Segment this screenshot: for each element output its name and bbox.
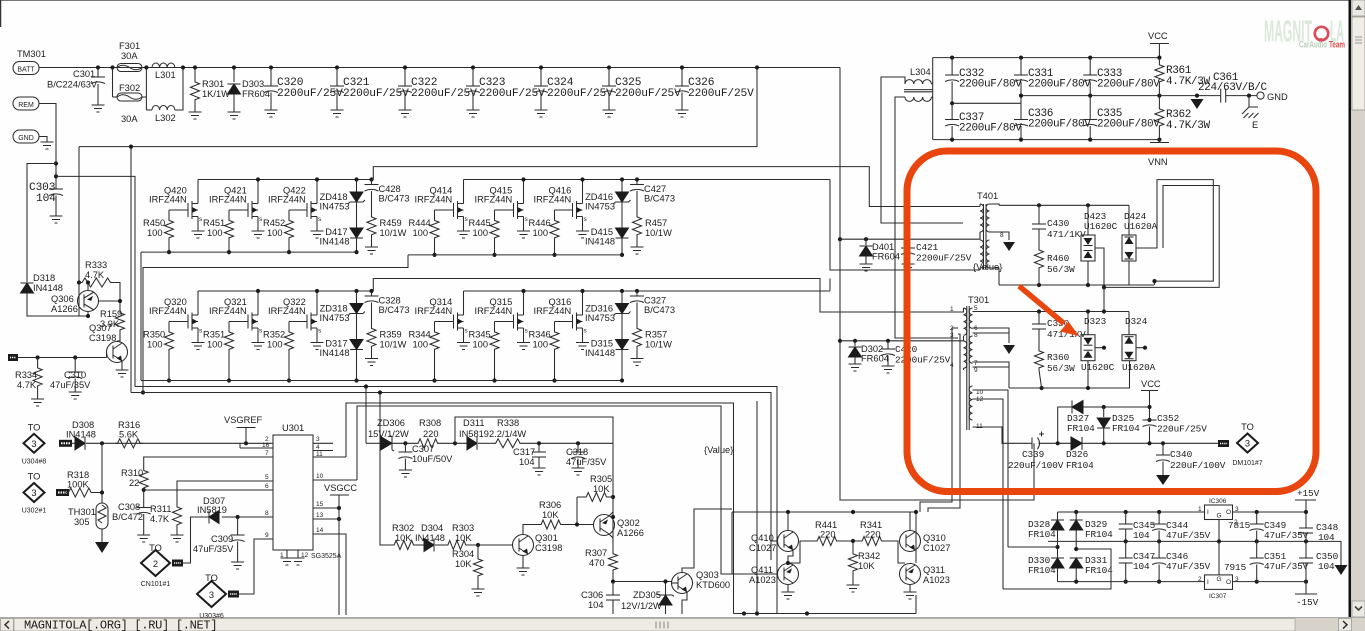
svg-text:2200uF/80V: 2200uF/80V [1097, 119, 1160, 131]
bank C bus rise to T301 feed [373, 279, 963, 313]
transistor Q302 A1266 (PNP) [594, 515, 615, 536]
drain bus [198, 179, 373, 181]
svg-text:R459: R459 [380, 218, 402, 228]
capacitor C307 [403, 441, 407, 445]
svg-text:L304: L304 [910, 67, 931, 77]
transistor Q307 (NPN C3198) [107, 342, 128, 363]
svg-text:IRFZ44N: IRFZ44N [534, 306, 572, 316]
resistor R307 [609, 552, 618, 572]
svg-text:R345: R345 [469, 330, 491, 340]
capacitor C306 [612, 582, 614, 596]
diode D331 FR104 [1074, 547, 1078, 551]
svg-text:R308: R308 [419, 418, 441, 428]
svg-text:C3198: C3198 [89, 333, 116, 343]
BATT connector [13, 62, 39, 75]
svg-text:R301: R301 [202, 79, 224, 89]
gate bus A drop [140, 252, 142, 380]
svg-text:R460: R460 [1047, 253, 1070, 264]
svg-text:IN4148: IN4148 [320, 348, 350, 358]
svg-text:3: 3 [1245, 439, 1250, 449]
svg-text:10/1W: 10/1W [380, 340, 407, 350]
wire x=79 down [78, 147, 80, 316]
svg-text:IRFZ44N: IRFZ44N [534, 195, 572, 205]
net stub + TO DM101#7 [1218, 440, 1229, 447]
drain bus [464, 179, 831, 181]
nest drops to driver area [707, 392, 709, 394]
IC307 7915 [1205, 575, 1233, 590]
svg-text:D315: D315 [591, 339, 613, 349]
svg-text:R334: R334 [15, 370, 37, 380]
resistor R341 [860, 537, 884, 546]
svg-text:10K: 10K [455, 533, 472, 543]
svg-text:D326: D326 [1066, 449, 1089, 460]
capacitor C308 [143, 490, 145, 508]
L304 leads [881, 77, 963, 223]
gate resistor R350 [169, 321, 188, 323]
svg-text:12V/1/2W: 12V/1/2W [621, 601, 662, 611]
mosfet Q415 IRFZ44N [513, 203, 515, 217]
gate resistor R352 [289, 321, 307, 323]
svg-text:R444: R444 [409, 218, 431, 228]
cluster top rail [732, 511, 916, 513]
svg-text:O: O [1226, 509, 1231, 516]
capacitor C349 [1256, 512, 1258, 524]
svg-text:10/1W: 10/1W [645, 340, 672, 350]
svg-text:2200uF/25V: 2200uF/25V [343, 88, 409, 100]
resistor R338 [493, 439, 523, 448]
dual diode D324 U1620A [1128, 312, 1130, 335]
diode D304 IN4148 [416, 544, 424, 546]
diode D317 IN4148 [350, 340, 363, 350]
L301 inductor [152, 63, 175, 68]
gate bus B feed [143, 255, 408, 393]
GND stub to ground [39, 137, 47, 143]
capacitor C331 [1020, 58, 1022, 75]
svg-text:IRFZ44N: IRFZ44N [475, 306, 513, 316]
transistor Q301 C3198 [513, 535, 534, 556]
rectifier output loops [1095, 248, 1104, 287]
transistor Q311 A1023 [900, 564, 921, 585]
gate resistor R452 [289, 209, 307, 211]
riser wires to T301 primary [920, 328, 958, 512]
svg-text:100: 100 [147, 340, 163, 350]
svg-text:{Value}: {Value} [704, 445, 733, 455]
svg-text:C301: C301 [73, 69, 95, 79]
svg-text:TM301: TM301 [17, 49, 46, 59]
svg-text:IN5819: IN5819 [459, 429, 489, 439]
svg-text:FR104: FR104 [1067, 423, 1095, 434]
svg-text:12: 12 [301, 552, 309, 559]
capacitor C309 [237, 517, 239, 535]
svg-text:IRFZ44N: IRFZ44N [475, 195, 513, 205]
capacitor C330 [1037, 309, 1041, 313]
svg-text:10K: 10K [395, 533, 412, 543]
GND connector [13, 130, 39, 143]
svg-text:R452: R452 [263, 218, 285, 228]
svg-text:R333: R333 [85, 260, 107, 270]
svg-text:D308: D308 [72, 420, 94, 430]
REM wire down [39, 104, 56, 190]
svg-text:C339: C339 [1022, 449, 1044, 460]
svg-text:IC307: IC307 [1209, 593, 1227, 600]
capacitor C421 [907, 239, 909, 248]
svg-text:U303#6: U303#6 [199, 613, 224, 620]
capacitor C310 [74, 358, 76, 373]
svg-text:22: 22 [129, 478, 139, 488]
feed riser to ZD306 [365, 387, 367, 444]
svg-text:R316: R316 [118, 420, 140, 430]
svg-text:2200uF/25V: 2200uF/25V [411, 88, 477, 100]
bank B bus to T401 lower primary [830, 180, 980, 271]
node wire at y=581.5 [613, 581, 672, 583]
resistor R304 [476, 543, 480, 547]
svg-text:FR104: FR104 [1112, 423, 1140, 434]
capacitor C320 [269, 65, 273, 69]
diode D315 IN4148 [616, 340, 629, 350]
resistor R305 [576, 497, 578, 525]
svg-text:100: 100 [533, 228, 549, 238]
svg-text:5: 5 [974, 305, 978, 312]
bank D bus drop to T301 lower primary [829, 279, 831, 291]
svg-text:IRFZ44N: IRFZ44N [209, 306, 247, 316]
svg-text:D318: D318 [33, 273, 55, 283]
T301 secondary bottom bus [1009, 361, 1130, 388]
resistor R333 [79, 278, 114, 287]
svg-text:104: 104 [1318, 561, 1335, 572]
svg-text:U301: U301 [282, 423, 304, 433]
svg-text:VNN: VNN [1148, 157, 1168, 167]
to GND terminal [1226, 95, 1257, 97]
svg-text:T401: T401 [977, 191, 998, 201]
svg-text:R311: R311 [150, 504, 172, 514]
gate resistor R446 [555, 209, 573, 211]
svg-text:C3198: C3198 [535, 543, 562, 553]
gate resistor R444 [435, 209, 454, 211]
svg-text:100: 100 [267, 340, 283, 350]
svg-text:10/1W: 10/1W [645, 228, 672, 238]
capacitor C339 [1032, 438, 1040, 450]
svg-text:1: 1 [1198, 506, 1202, 513]
svg-text:7915: 7915 [1224, 562, 1247, 573]
svg-text:C308: C308 [118, 502, 140, 512]
svg-text:4.7K: 4.7K [85, 270, 105, 280]
capacitor C335 [1089, 96, 1091, 120]
L302 inductor [146, 109, 152, 111]
gate resistor R344 [435, 321, 454, 323]
svg-text:FR604: FR604 [872, 252, 900, 262]
rectifier diodes D328 FR104 [1057, 512, 1059, 520]
diode D326 FR104 [1071, 437, 1082, 450]
svg-text:REM: REM [18, 102, 34, 109]
pin7 wire to R310 [144, 457, 273, 469]
svg-text:A1023: A1023 [923, 575, 950, 585]
svg-text:C318: C318 [566, 447, 588, 457]
svg-text:2200uF/25V: 2200uF/25V [277, 88, 343, 100]
resistor R362 [1158, 96, 1160, 107]
earth E [1248, 96, 1250, 107]
svg-text:471/1KV: 471/1KV [1047, 229, 1086, 240]
svg-text:L302: L302 [155, 113, 176, 123]
capacitor C428 [369, 177, 373, 181]
svg-text:3: 3 [31, 439, 36, 449]
bottom scrollbar / status bar [0, 618, 1365, 631]
svg-text:CN101#1: CN101#1 [141, 581, 171, 588]
svg-text:220: 220 [423, 429, 439, 439]
resistor R342 [852, 541, 854, 552]
resistor R308 [416, 439, 440, 448]
vertical x=613 [612, 443, 614, 552]
main vertical bus x=840 [840, 68, 1034, 501]
resistor R459 [367, 215, 376, 237]
svg-text:ZD318: ZD318 [320, 304, 348, 314]
svg-text:Q307: Q307 [89, 323, 112, 333]
svg-text:DM101#7: DM101#7 [1232, 460, 1262, 467]
resistor R318 [67, 492, 69, 494]
power symbol -15V [1305, 582, 1307, 594]
capacitor C327 [635, 289, 639, 293]
capacitor C340 [1162, 443, 1164, 455]
svg-text:4: 4 [316, 444, 320, 451]
transistor Q411 A1023 [778, 564, 799, 585]
svg-text:R445: R445 [469, 218, 491, 228]
transistor Q306 (PNP A1266) [78, 291, 99, 312]
svg-text:C1027: C1027 [749, 543, 776, 553]
svg-text:C306: C306 [581, 590, 603, 600]
TO CN101#1 connector [141, 550, 170, 576]
cap bank rails [933, 57, 1160, 59]
svg-text:2200uF/80V: 2200uF/80V [959, 123, 1022, 135]
dual diode D323 U1620C [1086, 309, 1090, 313]
net stub box [8, 354, 18, 361]
svg-text:47uF/35V: 47uF/35V [50, 380, 91, 390]
transistor Q303 KTD600 [672, 573, 693, 594]
gate resistor R445 [495, 209, 514, 211]
svg-text:8: 8 [1000, 232, 1004, 239]
thermistor TH301 [101, 443, 103, 503]
svg-text:IN4148: IN4148 [33, 283, 63, 293]
orange callout arrow [1019, 286, 1064, 324]
svg-text:47uF/35V: 47uF/35V [1166, 561, 1211, 572]
svg-text:U1620A: U1620A [1122, 362, 1156, 373]
svg-text:IN4753: IN4753 [585, 202, 615, 212]
svg-text:C309: C309 [211, 534, 233, 544]
svg-text:I: I [1207, 579, 1209, 586]
diode D318 [21, 283, 34, 293]
gate bus A [141, 251, 357, 253]
svg-text:10K: 10K [455, 559, 472, 569]
T301 pin leads [958, 308, 964, 312]
svg-text:-15V: -15V [1296, 597, 1319, 608]
zener ZD306 [366, 442, 381, 444]
TO U302#1 connector [24, 483, 45, 502]
svg-text:D323: D323 [1084, 316, 1107, 327]
node line east [56, 176, 135, 386]
svg-text:VSGREF: VSGREF [224, 415, 263, 425]
svg-text:R303: R303 [452, 523, 474, 533]
svg-text:IN4148: IN4148 [320, 237, 350, 247]
svg-text:15V/1/2W: 15V/1/2W [368, 429, 409, 439]
base wire to R159 [98, 300, 120, 302]
mosfet Q322 IRFZ44N [306, 315, 308, 329]
svg-text:U1620C: U1620C [1084, 221, 1118, 232]
svg-text:C430: C430 [1047, 218, 1070, 229]
nest bus 3 [78, 315, 80, 317]
resistor R441 [788, 541, 815, 563]
mosfet Q321 IRFZ44N [247, 315, 249, 329]
svg-text:KTD600: KTD600 [696, 580, 730, 590]
svg-text:C427: C427 [644, 184, 666, 194]
nest bus 2 [135, 387, 777, 614]
capacitor C336 [1020, 103, 1022, 119]
svg-text:100: 100 [267, 228, 283, 238]
svg-text:5: 5 [265, 474, 269, 481]
diode D325 FR104 [1102, 405, 1106, 409]
svg-text:10K: 10K [542, 510, 559, 520]
diode D415 IN4148 [616, 228, 629, 238]
svg-text:R302: R302 [392, 523, 414, 533]
svg-text:L301: L301 [155, 70, 176, 80]
svg-text:BATT: BATT [17, 67, 35, 74]
mosfet Q420 IRFZ44N [187, 203, 189, 217]
svg-text:SG3525A: SG3525A [311, 553, 342, 560]
gate resistor R346 [555, 321, 573, 323]
svg-text:4.7K/3W: 4.7K/3W [1166, 120, 1211, 132]
transistor Q410 C1027 [778, 531, 799, 552]
resistor R360 [1035, 349, 1044, 370]
svg-text:B/C473: B/C473 [644, 194, 675, 204]
svg-text:FR104: FR104 [1028, 565, 1056, 576]
svg-text:100: 100 [473, 340, 489, 350]
capacitor C321 [335, 65, 339, 69]
nest bus 4 (pin11 route) [346, 403, 734, 614]
svg-text:CarAudio: CarAudio [1299, 40, 1327, 50]
bottom rail [1058, 581, 1205, 583]
nest bus 5 (pin10 route) [357, 406, 732, 574]
svg-text:B/C472: B/C472 [112, 512, 143, 522]
capacitor C332 [951, 58, 953, 75]
svg-text:E: E [1252, 120, 1258, 130]
lower rectifier output loops [1095, 347, 1104, 349]
svg-text:R360: R360 [1047, 352, 1070, 363]
svg-text:1: 1 [950, 306, 954, 313]
svg-text:104: 104 [1133, 530, 1150, 541]
svg-text:C428: C428 [379, 184, 401, 194]
power symbol VNN [1158, 140, 1160, 143]
mosfet Q314 IRFZ44N [453, 315, 455, 329]
svg-text:C352: C352 [1157, 413, 1179, 424]
svg-text:A1266: A1266 [617, 528, 644, 538]
capacitor C347 [1124, 580, 1128, 584]
REM connector [13, 97, 39, 110]
diode D303 [232, 65, 236, 69]
svg-text:10uF/50V: 10uF/50V [412, 454, 453, 464]
T401 secondary top bus [999, 204, 1129, 206]
svg-text:IRFZ44N: IRFZ44N [268, 195, 306, 205]
mosfet Q315 IRFZ44N [513, 315, 515, 329]
svg-text:FR604: FR604 [242, 89, 270, 99]
svg-text:2200uF/25V: 2200uF/25V [479, 88, 545, 100]
svg-text:100: 100 [147, 228, 163, 238]
svg-text:A1266: A1266 [51, 304, 78, 314]
gate resistor R450 [169, 209, 188, 211]
svg-text:Q302: Q302 [617, 518, 640, 528]
mid wire to C361/GND [1159, 95, 1220, 97]
svg-text:IRFZ44N: IRFZ44N [268, 306, 306, 316]
capacitor C323 [471, 65, 475, 69]
svg-text:D401: D401 [872, 242, 894, 252]
svg-text:R310: R310 [121, 468, 143, 478]
svg-text:T301: T301 [968, 295, 989, 305]
svg-text:6: 6 [265, 483, 269, 490]
svg-text:D317: D317 [325, 339, 347, 349]
svg-text:Q410: Q410 [751, 533, 774, 543]
svg-text:D304: D304 [421, 523, 443, 533]
svg-text:47uF/35V: 47uF/35V [566, 457, 607, 467]
svg-text:R307: R307 [585, 548, 607, 558]
top rail [1058, 511, 1205, 513]
svg-text:R352: R352 [263, 330, 285, 340]
svg-text:B/C473: B/C473 [379, 305, 410, 315]
svg-text:R446: R446 [529, 218, 551, 228]
zener ZD318 IN4753 [354, 289, 358, 293]
capacitor C350 [1304, 580, 1308, 584]
svg-text:IN4148: IN4148 [66, 430, 96, 440]
svg-text:IC306: IC306 [1209, 498, 1227, 505]
diode D417 IN4148 [350, 228, 363, 238]
diode D327 FR104 [1072, 401, 1083, 414]
svg-text:3: 3 [209, 590, 214, 600]
svg-text:7: 7 [265, 450, 269, 457]
svg-text:56/3W: 56/3W [1047, 264, 1075, 275]
svg-text:104: 104 [588, 600, 604, 610]
svg-text:100: 100 [413, 228, 429, 238]
right window border [1349, 0, 1352, 618]
svg-text:Q310: Q310 [923, 533, 946, 543]
transistor Q310 C1027 [900, 531, 921, 552]
svg-text:224/63V/B/C: 224/63V/B/C [1198, 82, 1268, 94]
svg-text:30A: 30A [121, 51, 138, 61]
capacitor C352 [1147, 418, 1151, 422]
svg-text:FR104: FR104 [1066, 460, 1094, 471]
svg-text:2200uF/25V: 2200uF/25V [547, 88, 613, 100]
svg-text:GND: GND [18, 135, 34, 142]
cluster bottom wire [734, 613, 917, 615]
svg-text:IN4148: IN4148 [415, 533, 445, 543]
svg-text:220: 220 [820, 530, 836, 540]
capacitor C427 [635, 177, 639, 181]
diode D330 FR104 [1055, 545, 1059, 549]
svg-text:FR104: FR104 [1028, 529, 1056, 540]
gate resistor R351 [229, 321, 248, 323]
svg-text:R338: R338 [497, 418, 519, 428]
svg-text:R159: R159 [100, 309, 122, 319]
svg-text:IRFZ44N: IRFZ44N [149, 195, 187, 205]
TO U304#8 connector [24, 434, 45, 453]
svg-text:B/C473: B/C473 [379, 194, 410, 204]
gate bus B [408, 254, 622, 256]
svg-text:2.2/1/4W: 2.2/1/4W [489, 429, 526, 439]
svg-text:Team: Team [1329, 40, 1345, 50]
svg-text:U304#8: U304#8 [22, 458, 47, 465]
svg-text:3: 3 [316, 436, 320, 443]
svg-text:R450: R450 [143, 218, 165, 228]
svg-text:2200uF/25V: 2200uF/25V [615, 88, 681, 100]
svg-text:104: 104 [36, 193, 56, 205]
svg-text:10/1W: 10/1W [380, 228, 407, 238]
base wire Q410 [771, 540, 778, 542]
svg-text:D417: D417 [325, 227, 347, 237]
capacitor C326 [680, 65, 684, 69]
